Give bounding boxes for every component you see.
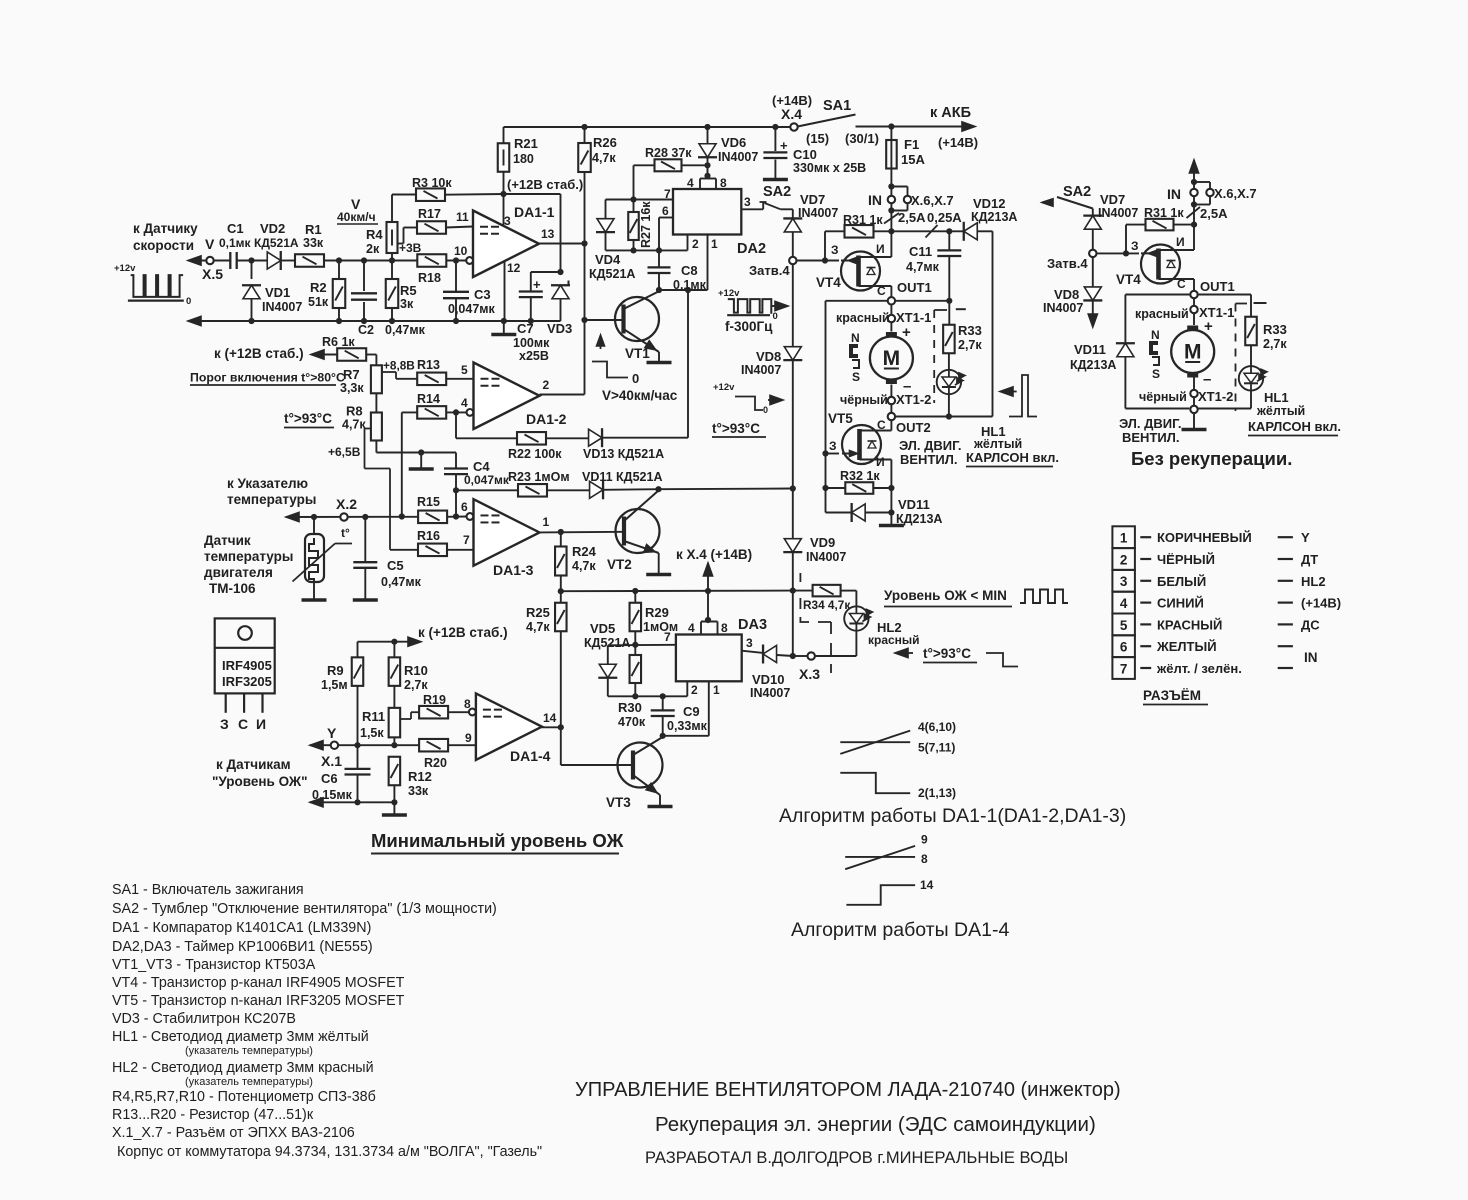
R11 wiper to R19: [400, 718, 411, 720]
svg-text:VD5: VD5: [590, 621, 615, 636]
svg-text:0: 0: [763, 405, 768, 415]
fuse F1: [890, 127, 892, 141]
resistor R1: [295, 254, 324, 267]
bottom ground rail X.1: [310, 798, 323, 807]
svg-text:(указатель температуры): (указатель температуры): [185, 1076, 313, 1088]
algorithm chart DA1-4 crossing lines: [845, 846, 915, 869]
svg-text:R17: R17: [418, 207, 441, 221]
svg-text:2: 2: [691, 683, 698, 697]
svg-text:Х.3: Х.3: [799, 666, 820, 682]
svg-text:З: З: [829, 439, 837, 453]
resistor R15: [418, 511, 447, 524]
svg-text:к Датчику: к Датчику: [133, 221, 198, 236]
svg-text:N: N: [1151, 328, 1160, 342]
switch SA1: [798, 115, 856, 127]
pulse glyphs MIN: [1020, 590, 1068, 604]
svg-text:ВЕНТИЛ.: ВЕНТИЛ.: [900, 452, 957, 467]
svg-text:DA1-2: DA1-2: [526, 411, 567, 427]
DA3 pin1 wire: [708, 681, 710, 736]
diode VD12: [964, 223, 978, 240]
connector OUT1 right: [1190, 291, 1197, 298]
svg-text:С: С: [877, 284, 886, 298]
X.3 row: [793, 655, 808, 657]
svg-text:+3В: +3В: [399, 241, 422, 255]
svg-text:IN: IN: [1304, 650, 1318, 665]
DA2 pins 4 8 bracket: [699, 179, 701, 190]
svg-text:IN: IN: [1167, 186, 1181, 202]
svg-text:ДС: ДС: [1301, 617, 1320, 632]
svg-text:11: 11: [456, 210, 469, 224]
svg-text:температуры: температуры: [227, 492, 316, 507]
ground symbol right motor: [1182, 428, 1207, 432]
svg-text:9: 9: [465, 731, 472, 745]
resistor R22: [456, 437, 517, 439]
svg-text:9: 9: [921, 833, 928, 847]
svg-text:Корпус от коммутатора 94.3734,: Корпус от коммутатора 94.3734, 131.3734 …: [117, 1144, 542, 1160]
DA2 pin1 wire: [707, 235, 709, 291]
svg-text:З: З: [1131, 239, 1139, 253]
svg-text:VD10: VD10: [752, 672, 785, 687]
svg-text:4: 4: [687, 176, 694, 190]
diode VD11 left flyback: [826, 512, 851, 514]
svg-text:DA2: DA2: [737, 241, 766, 257]
svg-text:Алгоритм работы DA1-1(DA1-2,DA: Алгоритм работы DA1-1(DA1-2,DA1-3): [779, 805, 1126, 827]
svg-text:SA2: SA2: [763, 184, 791, 200]
svg-text:40км/ч: 40км/ч: [337, 210, 376, 224]
svg-text:IN4007: IN4007: [750, 686, 790, 700]
algorithm chart DA1-4 step: [846, 885, 915, 905]
svg-text:З: З: [831, 243, 839, 257]
svg-text:VD6: VD6: [721, 135, 746, 150]
arrow up annotation VT1: [597, 335, 605, 346]
svg-text:IN4007: IN4007: [262, 300, 302, 314]
svg-text:VT5: VT5: [828, 411, 853, 426]
svg-text:(30/1): (30/1): [845, 131, 879, 146]
R7 wiper wire to R13: [382, 371, 396, 373]
dashed connector boundary X.3: [800, 573, 831, 673]
svg-text:N: N: [851, 331, 860, 345]
svg-text:OUT1: OUT1: [1200, 279, 1235, 294]
svg-text:+6,5В: +6,5В: [328, 445, 361, 459]
wire VD11 row to VD9 vertical: [659, 488, 793, 491]
wire X.5 to C1: [214, 260, 231, 262]
svg-text:1: 1: [711, 237, 718, 251]
svg-text:180: 180: [513, 152, 534, 166]
svg-text:VT1: VT1: [625, 346, 650, 361]
resistor R24: [560, 532, 562, 547]
svg-text:t°>93°С: t°>93°С: [923, 646, 971, 661]
svg-text:2,7к: 2,7к: [1263, 337, 1287, 351]
svg-text:красный: красный: [868, 633, 920, 647]
svg-text:t°: t°: [341, 526, 350, 540]
DA1-4 output wire: [540, 726, 561, 728]
connector XT1-1 left: [890, 305, 892, 315]
svg-text:R23 1мОм: R23 1мОм: [508, 470, 570, 484]
svg-text:33к: 33к: [303, 236, 324, 250]
svg-text:1: 1: [1120, 531, 1128, 546]
svg-text:IN4007: IN4007: [1098, 206, 1138, 220]
svg-text:жёлтый: жёлтый: [1256, 404, 1305, 418]
ground symbol below DA1-1: [491, 333, 516, 337]
svg-text:С: С: [238, 716, 248, 732]
svg-text:5(7,11): 5(7,11): [918, 741, 955, 755]
svg-text:Х.1_Х.7 - Разъём от ЭПХХ ВАЗ-2: Х.1_Х.7 - Разъём от ЭПХХ ВАЗ-2106: [112, 1125, 355, 1141]
connector table РАЗЪЁМ: [1112, 526, 1135, 548]
ground symbol VT3: [648, 805, 673, 809]
svg-text:R30: R30: [618, 700, 642, 715]
svg-text:2: 2: [692, 237, 699, 251]
R4 wiper to +3В: [398, 243, 404, 245]
svg-text:R12: R12: [408, 769, 432, 784]
svg-text:t°>93°С: t°>93°С: [712, 421, 760, 436]
transistor VT3: [618, 743, 663, 788]
svg-text:КРАСНЫЙ: КРАСНЫЙ: [1157, 617, 1222, 632]
capacitor C9: [662, 696, 664, 709]
label Затв.4 right: [1089, 250, 1096, 257]
resistor R5: [391, 261, 393, 280]
capacitor C10 electrolytic: [774, 127, 776, 151]
svg-text:Х.5: Х.5: [202, 266, 223, 282]
svg-text:Без рекуперации.: Без рекуперации.: [1131, 448, 1292, 469]
svg-text:IN4007: IN4007: [1043, 301, 1083, 315]
svg-text:IN4007: IN4007: [741, 363, 781, 377]
svg-text:R11: R11: [362, 709, 385, 724]
svg-text:DA2,DA3 - Таймер КР1006ВИ1 (NE: DA2,DA3 - Таймер КР1006ВИ1 (NE555): [112, 939, 373, 955]
svg-text:ТМ-106: ТМ-106: [209, 581, 256, 596]
ground rail lower left: [188, 316, 201, 325]
resistor R14: [402, 411, 418, 413]
svg-text:470к: 470к: [618, 715, 646, 729]
svg-text:C4: C4: [473, 459, 490, 474]
svg-text:SA1: SA1: [823, 98, 851, 114]
connector IN X.6 X.7 right: [1190, 189, 1197, 196]
svg-text:15А: 15А: [901, 152, 925, 167]
svg-text:(указатель температуры): (указатель температуры): [185, 1045, 313, 1057]
svg-text:R29: R29: [645, 605, 669, 620]
algorithm chart DA1-1 crossing lines: [840, 731, 910, 754]
svg-text:7: 7: [664, 630, 671, 644]
DA2 pin2 row: [606, 249, 688, 251]
capacitor C11: [948, 231, 950, 249]
svg-text:ХТ1-1: ХТ1-1: [896, 310, 931, 325]
svg-text:ЧЁРНЫЙ: ЧЁРНЫЙ: [1157, 552, 1215, 567]
svg-text:R4: R4: [366, 227, 383, 242]
resistor R13: [417, 373, 446, 386]
svg-text:И: И: [876, 242, 885, 256]
svg-text:IN4007: IN4007: [798, 206, 838, 220]
svg-text:8: 8: [921, 852, 928, 866]
diode VD6: [699, 144, 716, 158]
svg-text:4: 4: [1120, 596, 1128, 611]
svg-text:двигателя: двигателя: [204, 565, 273, 580]
capacitor C4: [455, 453, 457, 468]
svg-text:чёрный: чёрный: [840, 393, 888, 407]
VT4 right source wire: [1193, 225, 1195, 250]
resistor R16: [390, 549, 419, 551]
arrow left HL2 annotation: [895, 648, 908, 657]
diode VD7 left: [792, 209, 794, 218]
svg-text:R22 100к: R22 100к: [508, 447, 562, 461]
IRF package drawing: [215, 618, 275, 693]
capacitor C5: [364, 517, 366, 562]
svg-text:DA1 - Компаратор К1401СА1 (LM3: DA1 - Компаратор К1401СА1 (LM339N): [112, 920, 371, 936]
svg-text:R27 16к: R27 16к: [639, 201, 653, 248]
ground wire right motor: [1193, 413, 1195, 428]
svg-text:1,5м: 1,5м: [321, 678, 348, 692]
svg-text:R31 1к: R31 1к: [1144, 206, 1184, 220]
svg-text:Порог включения t°>80°С: Порог включения t°>80°С: [190, 371, 345, 385]
wire X.5 row left arrow: [188, 256, 201, 265]
capacitor C2: [363, 261, 365, 292]
svg-text:С: С: [877, 418, 886, 432]
resistor R19: [419, 706, 448, 719]
svg-text:+: +: [1204, 318, 1213, 335]
svg-text:S: S: [852, 370, 860, 384]
svg-text:R5: R5: [400, 283, 417, 298]
label Затв.4 left: [789, 257, 796, 264]
svg-text:4: 4: [688, 621, 695, 635]
svg-text:VD2: VD2: [260, 221, 285, 236]
DA2 pin6 wire: [659, 217, 673, 219]
svg-text:VD11: VD11: [898, 497, 930, 512]
enclosure right bottom row: [1125, 408, 1189, 410]
svg-text:Затв.4: Затв.4: [749, 263, 790, 278]
fuse slash 2.5A right: [1193, 205, 1195, 225]
connector OUT1 left: [888, 297, 895, 304]
R14 left wire down to X.2 row: [401, 412, 403, 516]
svg-text:1,5к: 1,5к: [360, 726, 384, 740]
svg-text:R18: R18: [418, 271, 441, 285]
svg-text:(15): (15): [806, 131, 829, 146]
svg-text:DA1-4: DA1-4: [510, 748, 551, 764]
svg-text:жёлтый: жёлтый: [973, 437, 1022, 451]
svg-text:R13...R20 - Резистор (47...51): R13...R20 - Резистор (47...51)к: [112, 1107, 314, 1123]
diode VD8 left: [792, 264, 794, 347]
svg-text:f-300Гц: f-300Гц: [725, 319, 773, 334]
svg-text:0: 0: [186, 296, 191, 307]
svg-text:2,5А: 2,5А: [898, 210, 926, 225]
+14V row to R34: [790, 588, 796, 594]
svg-text:V: V: [205, 236, 215, 252]
svg-text:2(1,13): 2(1,13): [918, 786, 956, 800]
capacitor C7 electrolytic: [530, 272, 532, 292]
svg-text:–: –: [1203, 371, 1211, 388]
fuse slash 2.5A left: [890, 211, 892, 232]
top +14V bus: [504, 126, 791, 128]
wire pin4 node down to R22 row: [455, 412, 457, 438]
svg-text:КД213А: КД213А: [971, 210, 1017, 224]
svg-text:R3 10к: R3 10к: [412, 176, 452, 190]
vertical bus out13/VT1 base/DA1-2 out: [584, 244, 586, 395]
VT4 source to R31 row: [890, 231, 892, 257]
diode VD5: [607, 645, 609, 664]
svg-text:VD12: VD12: [973, 196, 1006, 211]
diode VD7 right: [1092, 209, 1094, 216]
ground symbol at R8 bottom: [409, 467, 434, 471]
timer DA3 box: [676, 635, 742, 682]
resistor R25: [560, 591, 562, 603]
svg-text:14: 14: [920, 878, 934, 892]
svg-text:0: 0: [773, 311, 778, 322]
svg-text:R33: R33: [1263, 322, 1287, 337]
svg-text:З: З: [220, 716, 229, 732]
svg-text:100мк: 100мк: [513, 336, 550, 350]
wire VD2 to R1: [281, 260, 294, 262]
svg-text:t°>93°С: t°>93°С: [284, 411, 332, 426]
pulse annotation right of HL1: [1009, 375, 1037, 417]
resistor R18: [417, 254, 446, 267]
svg-text:Минимальный уровень ОЖ: Минимальный уровень ОЖ: [371, 830, 624, 851]
svg-text:4: 4: [461, 396, 468, 410]
connector XT1-2 left: [890, 385, 892, 397]
svg-text:VD8: VD8: [756, 349, 781, 364]
DA2 pin3 switch SA2 left: [741, 208, 763, 210]
svg-text:(+12В стаб.): (+12В стаб.): [507, 177, 583, 192]
svg-text:РАЗЪЁМ: РАЗЪЁМ: [1143, 688, 1201, 703]
svg-text:к АКБ: к АКБ: [930, 105, 971, 121]
svg-text:0,47мк: 0,47мк: [385, 323, 426, 337]
R8 wiper wire to R16: [365, 428, 372, 430]
R31 row junction: [888, 228, 894, 234]
svg-text:R19: R19: [423, 693, 446, 707]
svg-text:VD11 КД521А: VD11 КД521А: [582, 470, 662, 484]
svg-text:V>40км/час: V>40км/час: [602, 388, 678, 403]
transistor VT1: [615, 297, 659, 341]
DA1-1 output wire to node: [539, 243, 585, 245]
transistor VT2: [616, 509, 660, 553]
svg-text:КОРИЧНЕВЫЙ: КОРИЧНЕВЫЙ: [1157, 530, 1252, 545]
svg-text:Х.6,Х.7: Х.6,Х.7: [911, 193, 954, 208]
svg-text:3: 3: [504, 214, 511, 228]
svg-text:температуры: температуры: [204, 549, 293, 564]
svg-text:ЭЛ. ДВИГ.: ЭЛ. ДВИГ.: [899, 438, 961, 453]
potentiometer R4: [391, 195, 393, 223]
DA1-2 output wire: [540, 394, 585, 396]
svg-text:VT2: VT2: [607, 557, 632, 572]
svg-text:VT4 - Транзистор p-канал IRF49: VT4 - Транзистор p-канал IRF4905 MOSFET: [112, 975, 405, 991]
svg-text:R34 4,7к: R34 4,7к: [803, 598, 850, 612]
svg-text:OUT1: OUT1: [897, 280, 932, 295]
diode VD1: [251, 261, 253, 280]
svg-text:R24: R24: [572, 544, 597, 559]
svg-text:4,7к: 4,7к: [526, 620, 550, 634]
svg-text:УПРАВЛЕНИЕ ВЕНТИЛЯТОРОМ ЛАДА: УПРАВЛЕНИЕ ВЕНТИЛЯТОРОМ ЛАДА-210740 (инж…: [575, 1079, 1121, 1101]
DA1-1 pin3 supply wire: [503, 194, 505, 226]
svg-text:7: 7: [463, 533, 470, 547]
X.1 row: [310, 741, 323, 750]
diode VD2: [267, 252, 281, 269]
svg-text:3,3к: 3,3к: [340, 381, 364, 395]
mosfet VT5 left: [826, 453, 840, 455]
svg-text:VD9: VD9: [810, 535, 835, 550]
svg-text:VT4: VT4: [816, 275, 841, 290]
ground symbol VT5: [879, 524, 904, 528]
connector X.2: [340, 513, 347, 520]
DA3 pin3 output / diode VD10: [742, 651, 762, 653]
diode VD8 right: [1092, 257, 1094, 287]
resistor R30: [634, 645, 636, 656]
svg-text:HL1: HL1: [1264, 390, 1289, 405]
svg-text:13: 13: [541, 227, 555, 241]
ground symbol C10: [763, 178, 788, 182]
svg-text:3: 3: [1120, 574, 1128, 589]
op-amp DA1-1: [473, 211, 539, 278]
waveform V more 40: [592, 362, 628, 378]
svg-text:2: 2: [1120, 552, 1128, 567]
svg-text:33к: 33к: [408, 784, 429, 798]
resistor R2: [338, 261, 340, 280]
potentiometer R7: [375, 355, 377, 366]
led HL1 left: [937, 370, 961, 394]
svg-text:к Указателю: к Указателю: [227, 476, 308, 491]
svg-text:VT4: VT4: [1116, 272, 1141, 287]
svg-text:4,7к: 4,7к: [572, 559, 596, 573]
svg-text:2,5А: 2,5А: [1200, 206, 1228, 221]
junction circle right: [1193, 397, 1195, 406]
connector Y X.1: [331, 742, 338, 749]
diode VD9: [792, 489, 794, 539]
svg-text:6: 6: [662, 204, 669, 218]
svg-text:5: 5: [461, 363, 468, 377]
enclosure left vertical to VT5 gate: [826, 300, 888, 302]
resistor R23: [456, 489, 518, 491]
svg-text:красный: красный: [836, 311, 890, 325]
diode VD11 right: [1117, 343, 1134, 357]
svg-text:ХТ1-2: ХТ1-2: [1198, 389, 1233, 404]
svg-text:КД213А: КД213А: [1070, 358, 1116, 372]
op-amp DA1-2: [474, 363, 540, 430]
svg-text:Y: Y: [327, 725, 337, 741]
svg-text:VT3: VT3: [606, 795, 631, 810]
svg-text:C9: C9: [683, 704, 700, 719]
svg-text:14: 14: [543, 711, 557, 725]
svg-text:Y: Y: [1301, 530, 1310, 545]
svg-text:КАРЛСОН вкл.: КАРЛСОН вкл.: [1248, 419, 1341, 434]
svg-text:R31 1к: R31 1к: [843, 213, 883, 227]
svg-text:3к: 3к: [400, 297, 414, 311]
svg-text:0,47мк: 0,47мк: [381, 575, 422, 589]
connector XT1-2 right: [1193, 378, 1195, 390]
bus SA1 to АКБ arrow: [856, 126, 967, 128]
+12V stab to C7/VD3 wire: [504, 193, 561, 195]
led HL1 right: [1239, 366, 1263, 390]
svg-text:1мОм: 1мОм: [643, 620, 678, 634]
capacitor C1: [229, 252, 231, 269]
svg-text:чёрный: чёрный: [1139, 390, 1187, 404]
svg-text:8: 8: [464, 697, 471, 711]
VT1 base wire: [585, 319, 624, 321]
DA2 pin7 row: [606, 199, 674, 201]
svg-text:R1: R1: [305, 222, 322, 237]
svg-text:VT5 - Транзистор n-канал IRF32: VT5 - Транзистор n-канал IRF3205 MOSFET: [112, 993, 405, 1009]
svg-text:C7: C7: [517, 321, 534, 336]
svg-text:330мк х 25В: 330мк х 25В: [793, 161, 866, 175]
svg-text:R2: R2: [310, 280, 327, 295]
dashed box left R33: [933, 310, 935, 403]
svg-text:51к: 51к: [308, 295, 329, 309]
svg-text:жёлт. / зелён.: жёлт. / зелён.: [1156, 661, 1242, 676]
potentiometer R8: [371, 413, 382, 441]
svg-text:(+14В): (+14В): [938, 135, 978, 150]
wire C4 node to R15 row: [455, 490, 457, 516]
capacitor C3: [455, 261, 457, 292]
resistor R3: [392, 194, 416, 196]
svg-text:C3: C3: [474, 287, 491, 302]
ground symbol VT1: [647, 361, 672, 365]
svg-text:IN4007: IN4007: [718, 150, 758, 164]
svg-text:И: И: [1176, 235, 1185, 249]
svg-text:OUT2: OUT2: [896, 420, 931, 435]
